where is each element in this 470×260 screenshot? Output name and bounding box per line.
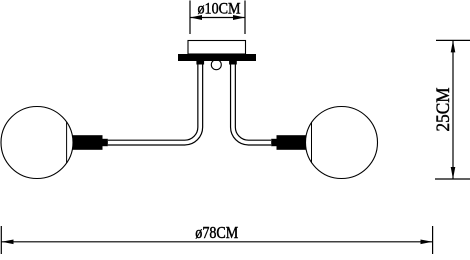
svg-text:ø10CM: ø10CM bbox=[198, 0, 241, 17]
svg-text:ø78CM: ø78CM bbox=[195, 223, 238, 242]
svg-text:25CM: 25CM bbox=[433, 87, 454, 131]
